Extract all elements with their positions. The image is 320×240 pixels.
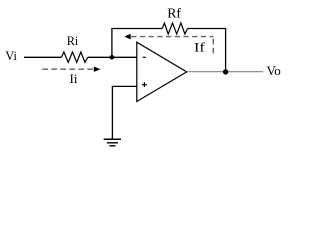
svg-text:Ri: Ri bbox=[67, 33, 79, 48]
resistor Rf bbox=[162, 23, 187, 34]
svg-text:Ii: Ii bbox=[70, 71, 78, 86]
wire feedback loop: up from node A, across top, down to output node bbox=[112, 29, 162, 58]
wire input Vi to resistor Ri bbox=[24, 56, 61, 58]
current Ii dashed arrow bbox=[42, 68, 94, 70]
wire resistor Ri to op-amp inverting input bbox=[88, 56, 137, 58]
svg-text:Vi: Vi bbox=[5, 48, 17, 63]
current If dashed arrow bbox=[131, 36, 213, 38]
resistor Ri bbox=[61, 52, 87, 62]
wire non-inverting input to ground bbox=[112, 86, 136, 138]
ground bbox=[104, 138, 121, 140]
svg-text:Vo: Vo bbox=[267, 63, 281, 78]
node A junction dot (inverting input) bbox=[110, 55, 115, 60]
op-amp U1 triangle bbox=[137, 42, 187, 101]
op-amp inverting pin minus sign bbox=[143, 56, 146, 58]
current If dashed vertical segment bbox=[212, 39, 214, 54]
node output junction dot bbox=[223, 69, 228, 74]
wire op-amp output to Vo (gray) bbox=[187, 71, 264, 73]
svg-text:If: If bbox=[194, 39, 206, 54]
op-amp non-inverting pin plus sign bbox=[142, 82, 147, 87]
svg-text:Rf: Rf bbox=[167, 6, 181, 21]
wire Rf to right vertical, down to output node bbox=[188, 29, 226, 73]
